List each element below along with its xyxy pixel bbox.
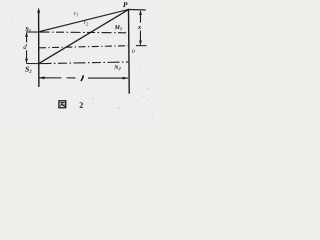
d dimension line with outward arrows bbox=[25, 32, 28, 64]
l dimension line with arrows at bottom bbox=[39, 76, 128, 79]
svg-text:M1: M1 bbox=[114, 25, 123, 31]
faint scan speckles bbox=[92, 88, 153, 116]
right observation screen line bbox=[128, 9, 129, 94]
svg-text:N2: N2 bbox=[113, 65, 121, 71]
ray r2 from S2 to P bbox=[39, 9, 129, 64]
top horizontal line from P bbox=[129, 9, 146, 11]
svg-text:2: 2 bbox=[79, 101, 83, 110]
S2 level dash-dot line to N2 (with solid left tick to d-dimension) bbox=[26, 62, 128, 64]
left slit screen line with top arrowhead bbox=[37, 8, 40, 87]
svg-text:r1: r1 bbox=[74, 11, 79, 17]
central axis dash-dot line to O bbox=[39, 46, 128, 48]
svg-text:S1: S1 bbox=[25, 26, 31, 33]
svg-text:x: x bbox=[137, 24, 142, 31]
x dimension line on right with arrows bbox=[139, 10, 142, 45]
svg-text:r2: r2 bbox=[84, 20, 89, 26]
label l bbox=[81, 75, 83, 81]
svg-text:P: P bbox=[123, 0, 128, 9]
S1 level dash-dot line to M1 (with solid left tick to d-dimension) bbox=[26, 31, 128, 34]
svg-text:d: d bbox=[23, 43, 27, 51]
O level tick on dimension line bbox=[136, 45, 147, 47]
paper background bbox=[0, 0, 156, 124]
ray r1 from S1 to P bbox=[39, 9, 129, 32]
caption: hand-drawn CJK glyph 图 bbox=[59, 101, 66, 108]
